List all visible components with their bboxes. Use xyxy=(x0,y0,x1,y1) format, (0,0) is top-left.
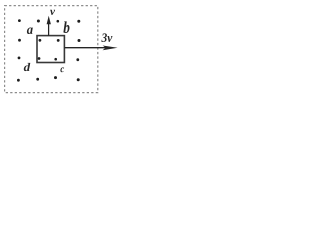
velocity arrow 3v (rightward from right side) xyxy=(64,46,117,51)
label b (top-right corner) xyxy=(63,21,69,33)
physics figure: square loop abcd in magnetic field (dots) with velocity arrows v and 3v xyxy=(0,0,120,103)
label d (bottom-left corner) xyxy=(24,63,31,71)
velocity arrow v (upward from top side) xyxy=(47,16,51,36)
field dots row 3 xyxy=(18,57,80,62)
label a (top-left corner) xyxy=(27,28,33,35)
label v (up arrow) xyxy=(50,10,55,15)
label c (bottom-right corner) xyxy=(60,67,64,72)
dashed boundary of field region xyxy=(5,6,98,93)
field dots row 1 xyxy=(18,19,80,23)
field dots row 4 xyxy=(17,76,80,82)
label 3v (right arrow) xyxy=(101,33,112,42)
square loop abcd xyxy=(37,36,64,63)
field dots row 2 xyxy=(18,39,80,42)
